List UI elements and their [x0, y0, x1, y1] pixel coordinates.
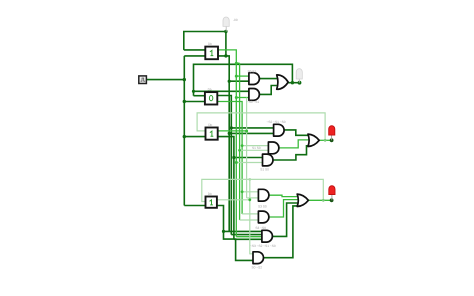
- wire pale vertical 246.6: [246, 98, 248, 198]
- wire gate A upper input: [236, 75, 249, 77]
- wire FF2 Qbar out down bus: [217, 102, 242, 214]
- flip-flop FF1: [205, 42, 218, 59]
- wire clock to FF4: [184, 205, 205, 207]
- OR gate OR3: [297, 194, 308, 206]
- wire gate H output to OR3: [269, 200, 298, 217]
- wire OR3 output to LED node: [309, 199, 332, 201]
- wire clock distribution vertical: [183, 56, 185, 206]
- svg-text:S3 S0: S3 S0: [258, 204, 267, 208]
- svg-text:~S2 ~S1 ~S0: ~S2 ~S1 ~S0: [267, 120, 286, 124]
- svg-text:S0 S1: S0 S1: [248, 70, 257, 74]
- wire gate B output to OR1: [258, 86, 277, 95]
- wire FF3 Q to right bus: [218, 130, 247, 132]
- wire OR2 output to FF3 D feedback loop: [197, 113, 325, 140]
- wire FF1 D input: [184, 49, 206, 51]
- node gateB upper: [192, 90, 195, 93]
- wire gate B upper input: [194, 90, 250, 92]
- flip-flop FF4: [206, 192, 217, 208]
- wire gate A lower input: [229, 80, 249, 82]
- wire gate G output to OR3: [269, 195, 298, 196]
- wire gate I input3: [236, 236, 262, 238]
- flip-flop FF2: [205, 88, 217, 105]
- wire clock to FF2: [184, 101, 205, 103]
- svg-text:~S0 ~S1: ~S0 ~S1: [247, 100, 260, 104]
- wire FF2 Q down bus: [217, 96, 231, 235]
- AND gate J: [252, 252, 264, 270]
- wire FF1 Qbar to feedback and down bus: [218, 56, 229, 232]
- wire gate D output to OR2: [279, 140, 309, 148]
- AND gate G: [258, 189, 269, 208]
- node OR1 out: [291, 81, 294, 84]
- node LED3: [330, 198, 334, 202]
- AND gate B: [247, 89, 260, 104]
- wire gate A output to OR1: [258, 78, 277, 80]
- wire gate C upper input: [231, 127, 273, 129]
- wire gate C output to OR2: [284, 130, 308, 135]
- svg-text:-00: -00: [233, 18, 238, 22]
- wire FF2 D input: [194, 95, 205, 97]
- clock input pin: [139, 76, 147, 84]
- wire gate H lower input: [240, 219, 259, 221]
- AND gate A: [248, 70, 260, 85]
- AND gate D: [252, 142, 279, 154]
- svg-text:S3 ~S0: S3 ~S0: [255, 226, 266, 230]
- wire clock to FF3: [184, 136, 205, 138]
- LED1 grey top: [223, 17, 238, 32]
- svg-text:~S3 ~S2 ~S1 ~S0: ~S3 ~S2 ~S1 ~S0: [250, 244, 276, 248]
- wire gate D upper input: [242, 145, 268, 147]
- wire OR1 out to LED node: [288, 82, 300, 84]
- svg-text:S0 ~S2: S0 ~S2: [252, 266, 263, 270]
- wire gate I input4: [234, 238, 262, 240]
- svg-text:Db: Db: [208, 42, 212, 46]
- svg-text:Db: Db: [208, 88, 212, 92]
- svg-text:Db: Db: [208, 123, 212, 127]
- wire clock to FF1: [184, 55, 205, 57]
- AND gate E: [260, 154, 273, 172]
- node light bus Ts: [235, 75, 238, 78]
- wire gate J output to OR3: [263, 206, 298, 258]
- AND gate H: [255, 211, 269, 230]
- svg-text:S1 S0: S1 S0: [252, 146, 261, 150]
- wire OR3 output to FF4 D feedback loop: [202, 179, 323, 201]
- wire gate I input1: [224, 230, 262, 232]
- wire gate D lower input: [240, 149, 269, 151]
- OR gate OR1: [277, 75, 289, 89]
- wire gate E output to OR2: [272, 146, 309, 160]
- node LED2: [330, 138, 334, 142]
- wire clock input to main vertical: [146, 79, 184, 81]
- wire FF1 Q out down bus: [218, 50, 236, 237]
- wire gate B lower input: [236, 97, 249, 99]
- wire gate G lower input: [247, 197, 259, 199]
- wire gate C lower input: [229, 132, 273, 134]
- LED4 red: [329, 186, 335, 201]
- wire gate E upper input: [234, 157, 263, 159]
- wire gate I input2: [231, 234, 262, 236]
- wire FF1 feedback top rectangle: [184, 32, 226, 56]
- OR gate OR2: [308, 134, 319, 146]
- wire loop branch to gate J upper: [250, 179, 253, 253]
- wire gate H upper input: [242, 213, 258, 215]
- svg-text:Db: Db: [208, 192, 212, 196]
- wire vertical branch 239.6: [239, 63, 241, 220]
- wire gate G upper input: [242, 191, 258, 193]
- wire FF4 Q out: [217, 199, 250, 201]
- wire FF3 Qbar down bus: [218, 137, 234, 240]
- wire gate E lower input: [236, 162, 262, 164]
- wire gate I output to OR3: [272, 203, 298, 236]
- LED2 grey: [296, 69, 302, 83]
- node dark bus Ts: [228, 80, 231, 83]
- AND gate I: [250, 230, 276, 248]
- node FF1 feedback: [224, 54, 227, 57]
- LED3 red: [329, 126, 335, 141]
- wire OR2 output to LED node: [319, 139, 332, 141]
- node clock T: [183, 78, 186, 81]
- wire OR1 output net top horizontal: [194, 64, 293, 95]
- wire branch light at y63: [236, 62, 239, 64]
- wire FF4 Qbar path to gate J: [217, 206, 253, 261]
- AND gate C: [267, 120, 286, 136]
- svg-text:S1 S0: S1 S0: [260, 168, 269, 172]
- flip-flop FF3: [206, 123, 218, 140]
